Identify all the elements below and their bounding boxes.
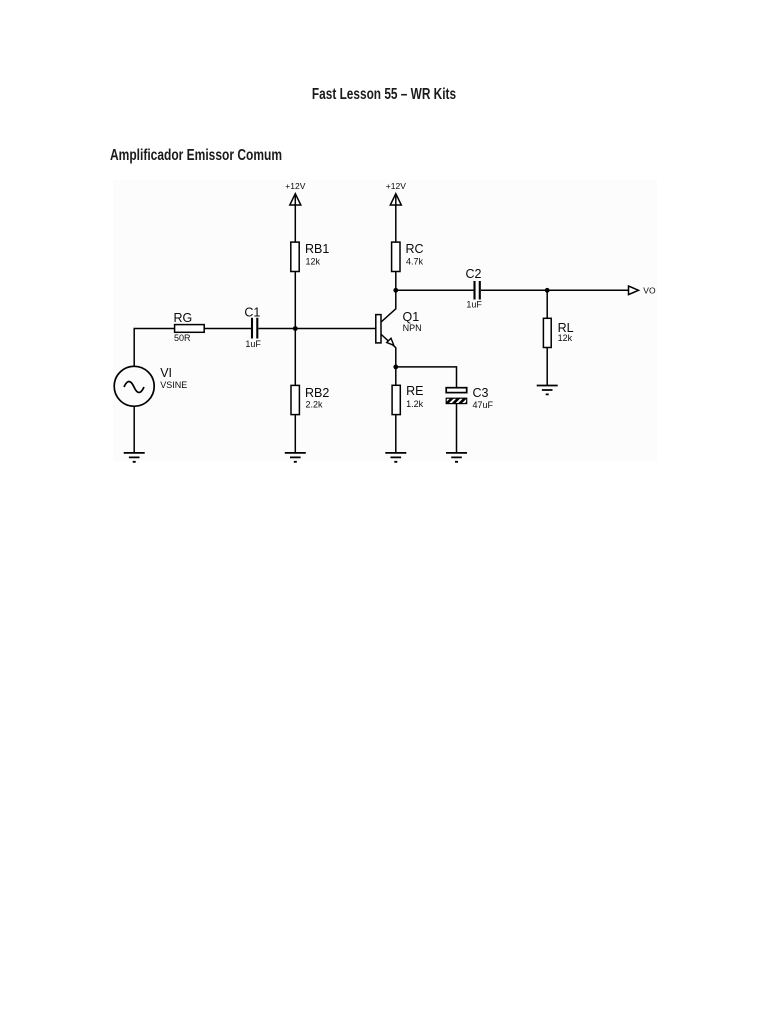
svg-text:NPN: NPN [403, 323, 422, 333]
svg-text:Q1: Q1 [403, 310, 420, 324]
svg-text:C3: C3 [473, 386, 489, 400]
svg-text:RB2: RB2 [305, 386, 329, 400]
svg-text:VSINE: VSINE [160, 380, 187, 390]
svg-text:+12V: +12V [386, 181, 406, 191]
svg-text:+12V: +12V [285, 181, 305, 191]
svg-text:47uF: 47uF [473, 400, 494, 410]
svg-text:C1: C1 [244, 306, 260, 320]
svg-text:RB1: RB1 [305, 242, 329, 256]
svg-text:C2: C2 [466, 267, 482, 281]
svg-text:RE: RE [406, 384, 423, 398]
svg-text:1uF: 1uF [466, 300, 482, 310]
svg-text:1.2k: 1.2k [406, 399, 424, 409]
svg-text:4.7k: 4.7k [406, 257, 424, 267]
svg-text:RG: RG [174, 311, 193, 325]
svg-text:12k: 12k [306, 257, 321, 267]
svg-text:RC: RC [406, 242, 424, 256]
svg-text:VI: VI [160, 366, 172, 380]
svg-text:1uF: 1uF [245, 339, 261, 349]
svg-text:2.2k: 2.2k [306, 400, 324, 410]
svg-text:12k: 12k [558, 333, 573, 343]
svg-text:50R: 50R [174, 333, 191, 343]
svg-text:VO: VO [643, 285, 656, 295]
